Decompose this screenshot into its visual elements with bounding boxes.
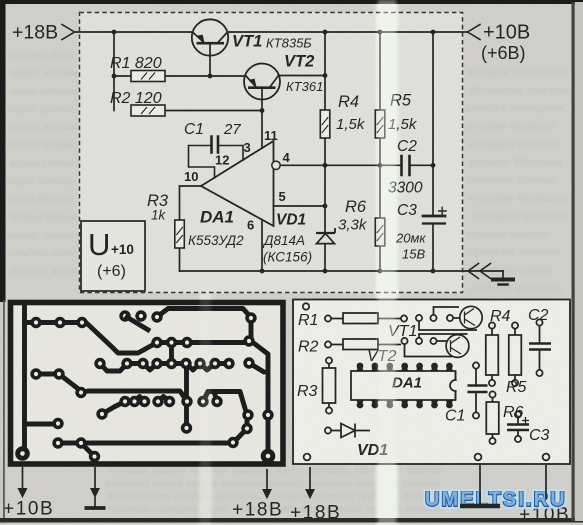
board C1 capacitor bbox=[473, 362, 479, 368]
junction node +10V rail / C3 column bbox=[431, 30, 436, 35]
pcb trace row3 chain bbox=[100, 364, 229, 372]
pcb pads top right diagonal bbox=[125, 316, 150, 331]
schematic paper area bbox=[79, 12, 463, 293]
transistor VT2 bbox=[244, 64, 280, 100]
board R1 bbox=[325, 315, 331, 321]
board VT2 transistor bbox=[446, 335, 469, 358]
wire bottom rail bbox=[180, 270, 504, 272]
+10V output arrow bbox=[468, 25, 481, 40]
capacitor C1 plates bbox=[212, 137, 219, 153]
wire C1 pin3 hook bbox=[218, 146, 243, 161]
pcb pads bbox=[30, 310, 273, 462]
resistor R2 body bbox=[131, 105, 165, 116]
capacitor C2 plates bbox=[402, 156, 410, 175]
board R2 bbox=[325, 341, 331, 347]
pcb left rail trace bbox=[22, 304, 27, 453]
board R4 bbox=[489, 322, 495, 328]
junction node VT2 emitter / R4 column bbox=[323, 73, 328, 78]
ground symbol right bbox=[502, 271, 504, 278]
board DA1 DIP IC body bbox=[351, 371, 456, 400]
board C2 capacitor bbox=[536, 319, 542, 325]
wire pin 5 to VD1 bbox=[274, 205, 326, 207]
wire top rail +10V side bbox=[228, 31, 468, 33]
pcb trace row2 chain bbox=[157, 340, 249, 345]
pcb trace left chain row4 bbox=[36, 374, 81, 391]
wire C3 column bbox=[432, 32, 434, 271]
board R3 bbox=[326, 357, 332, 363]
op-amp DA1 triangle bbox=[201, 141, 274, 226]
arrow +18V comp board bbox=[309, 467, 311, 490]
ground symbol left bbox=[94, 497, 96, 508]
wire top rail +18V side bbox=[75, 31, 193, 33]
watermark umeltsi.ru bbox=[425, 488, 567, 511]
board DA1 pins bbox=[357, 363, 453, 409]
wire R1R2 branch vertical bbox=[113, 32, 115, 111]
pcb trace horseshoe top bbox=[203, 392, 208, 402]
page border right bbox=[572, 2, 575, 521]
junction node output row / R4-VD1 column bbox=[323, 163, 328, 168]
pcb trace vertical mid bbox=[184, 364, 189, 429]
junction node output row / C3 column bbox=[431, 163, 436, 168]
board VD1 diode bbox=[325, 427, 331, 433]
pcb trace via stub bbox=[25, 422, 59, 427]
light strip main bbox=[378, 0, 396, 525]
wire pin 6 down bbox=[261, 220, 263, 271]
light strip secondary bbox=[200, 295, 211, 525]
pcb trace small cluster bbox=[102, 402, 125, 415]
wire pin 10 to R3 bbox=[180, 185, 202, 187]
board R6 bbox=[489, 391, 495, 397]
junction node +10V rail / R4 column bbox=[323, 30, 328, 35]
pcb corner pad left bbox=[15, 446, 30, 461]
arrow ground left bbox=[94, 467, 96, 489]
board VT1 transistor bbox=[460, 306, 482, 328]
pcb corner pad right bbox=[261, 449, 276, 464]
junction node ground rail / R6 bbox=[378, 269, 383, 274]
ground lead comp board bbox=[479, 465, 481, 505]
output arrows bottom right bbox=[468, 264, 491, 279]
+18V input arrow bbox=[62, 25, 75, 40]
board mounting holes bbox=[304, 454, 311, 461]
page border top bbox=[0, 0, 583, 4]
component board background bbox=[293, 300, 570, 465]
junction node VT1 base / R1 / VT2 bbox=[208, 74, 213, 79]
junction node ground rail / pin 6 bbox=[260, 269, 265, 274]
dashed schematic border bbox=[80, 13, 463, 293]
zener diode VD1 bbox=[316, 228, 335, 244]
board C3 electrolytic bbox=[515, 411, 521, 417]
U output-voltage legend box bbox=[81, 221, 145, 291]
+10V lead comp board bbox=[545, 465, 547, 499]
resistor R4 body bbox=[320, 110, 330, 138]
pcb trace chain row1 bbox=[25, 323, 158, 354]
junction node pin 5 / VD1 bbox=[323, 204, 328, 209]
wire C1 pin12 hook bbox=[189, 146, 215, 178]
board R5 bbox=[512, 322, 518, 328]
pcb trace mid diagonal bbox=[81, 391, 187, 402]
capacitor C3 electrolytic plates bbox=[423, 215, 445, 218]
wire VT2 emitter to R4 column bbox=[279, 75, 326, 77]
PCB board background bbox=[8, 300, 286, 466]
wire R4 VD1 column bbox=[324, 32, 326, 271]
wire R2 row bbox=[165, 110, 262, 112]
resistor R3 body bbox=[175, 220, 185, 248]
junction node ground rail / C3 bbox=[431, 269, 436, 274]
arrow +10V left bbox=[22, 467, 24, 489]
junction node +18V rail / R1-R2 branch bbox=[112, 30, 117, 35]
C3 plus sign bbox=[439, 207, 447, 214]
arrow +18V pcb bbox=[266, 469, 268, 490]
schematic labels bbox=[12, 22, 530, 265]
resistor R5 body bbox=[375, 110, 385, 138]
pcb trace row2-row3 link bbox=[169, 343, 174, 364]
transistor VT1 bbox=[192, 19, 228, 76]
junction node +10V rail / R5 column bbox=[378, 30, 383, 35]
resistor R6 body bbox=[375, 218, 385, 246]
op-amp output inversion circle pin 4 bbox=[272, 161, 280, 169]
PCB board frame bbox=[11, 303, 284, 465]
junction node R1 tap bbox=[112, 74, 117, 79]
light strip base (under ink) bbox=[376, 0, 398, 525]
wire R1 row bbox=[114, 75, 246, 77]
page border left thin bbox=[3, 300, 5, 521]
pcb trace top right loop bbox=[157, 309, 268, 456]
wire R3 column bbox=[179, 186, 181, 271]
junction node VT2 collector / R2 / pin 11 bbox=[260, 108, 265, 113]
pcb trace oO row bbox=[135, 397, 170, 402]
resistor R1 body bbox=[131, 71, 165, 82]
junction node output row / R5-R6 divider bbox=[378, 163, 383, 168]
junction node ground rail / VD1 bbox=[323, 269, 328, 274]
wire R5 R6 column bbox=[379, 32, 381, 271]
pcb trace row3 right bbox=[249, 363, 264, 372]
wire VT2 collector / op-amp pin 11 column bbox=[261, 88, 263, 149]
page border left thick bbox=[0, 0, 6, 302]
pcb trace bottom loop bbox=[58, 392, 247, 457]
wire op-amp output row bbox=[282, 164, 434, 166]
page border bottom bbox=[0, 518, 583, 523]
